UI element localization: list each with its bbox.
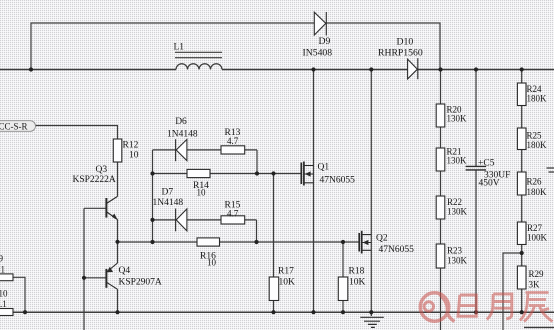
svg-text:130K: 130K <box>447 114 468 124</box>
svg-text:R12: R12 <box>123 141 139 151</box>
inductor L1 <box>176 64 222 70</box>
wire D7 R15 row <box>153 220 257 242</box>
wire Q1 drain source column <box>313 70 315 313</box>
svg-text:4.7: 4.7 <box>227 209 239 219</box>
resistor R15 <box>221 216 245 224</box>
svg-text:450V: 450V <box>479 179 500 189</box>
wire C5 column <box>475 70 477 313</box>
svg-text:47N6055: 47N6055 <box>320 176 356 186</box>
svg-text:R18: R18 <box>349 267 365 277</box>
svg-text:130K: 130K <box>447 156 468 166</box>
transistor Q4 <box>106 263 117 289</box>
svg-text:180K: 180K <box>527 140 548 150</box>
svg-text:CC-S-R: CC-S-R <box>0 121 28 131</box>
svg-text:IN5408: IN5408 <box>303 47 333 58</box>
wire R17 column <box>273 174 275 313</box>
svg-text:130K: 130K <box>447 256 468 266</box>
svg-text:R24: R24 <box>527 84 543 94</box>
svg-text:10: 10 <box>129 151 139 161</box>
resistor R25 <box>517 128 526 150</box>
wire top loop <box>31 23 440 70</box>
svg-text:KSP2907A: KSP2907A <box>119 278 162 288</box>
svg-text:180K: 180K <box>527 94 548 104</box>
ground <box>360 312 384 328</box>
wire R12 to Q3 collector <box>117 162 119 196</box>
svg-text:L1: L1 <box>174 43 185 53</box>
resistor R13 <box>221 146 245 154</box>
svg-text:100K: 100K <box>527 233 548 243</box>
svg-text:Q4: Q4 <box>119 266 131 276</box>
resistor R26 <box>517 172 526 195</box>
resistor R12 <box>113 139 122 162</box>
svg-text:R25: R25 <box>527 131 543 141</box>
transistor Q3 <box>106 196 117 220</box>
wire R24 R29 column <box>521 70 523 313</box>
capacitor right edge clipped <box>547 168 554 172</box>
wire R16 row to Q2 gate <box>118 241 360 243</box>
svg-text:D6: D6 <box>175 117 187 127</box>
diode D9 <box>314 12 326 36</box>
svg-text:4.7: 4.7 <box>227 136 239 146</box>
resistor R29 <box>517 266 526 289</box>
svg-text:+C5: +C5 <box>478 159 495 169</box>
wire R9 lead <box>13 277 25 312</box>
svg-text:Q2: Q2 <box>376 234 388 244</box>
wire Q3 Q4 column <box>117 220 119 313</box>
resistor R14 <box>187 169 210 177</box>
resistor R10 clipped <box>0 309 13 316</box>
resistor R16 <box>197 238 220 246</box>
diode D7 <box>176 209 187 232</box>
wire bottom bus <box>0 311 554 313</box>
svg-text:10K: 10K <box>349 278 366 288</box>
wire main bus right <box>222 69 554 71</box>
watermark logo <box>420 293 454 322</box>
svg-text:10K: 10K <box>279 278 296 288</box>
wire R10 lead <box>13 311 25 313</box>
watermark char ri <box>458 295 476 316</box>
mosfet Q2 <box>359 231 371 254</box>
watermark char chen <box>520 293 553 322</box>
svg-text:D9: D9 <box>319 36 331 47</box>
resistor R27 <box>517 222 526 245</box>
wire main bus left <box>0 69 176 71</box>
wire R18 column <box>342 242 344 312</box>
svg-text:RHRP1560: RHRP1560 <box>378 47 423 58</box>
wire bottom right stub <box>524 326 554 328</box>
svg-text:D10: D10 <box>397 37 414 48</box>
svg-text:1: 1 <box>1 264 6 274</box>
wire CC-S-R to R12 <box>34 126 118 140</box>
capacitor C5 <box>466 166 486 170</box>
wire Q3 base <box>84 207 106 209</box>
svg-text:10: 10 <box>197 187 207 197</box>
svg-text:Q3: Q3 <box>96 165 108 175</box>
wire feedback tap <box>503 253 522 330</box>
svg-text:D7: D7 <box>162 188 174 198</box>
resistor R17 <box>269 277 279 301</box>
mosfet Q1 <box>301 162 313 186</box>
wire base rail down off page <box>83 208 85 330</box>
svg-text:KSP2222A: KSP2222A <box>73 175 116 185</box>
resistor R22 <box>436 196 445 219</box>
svg-text:9: 9 <box>0 254 4 264</box>
resistor R23 <box>436 244 445 268</box>
svg-text:.1: .1 <box>0 299 7 309</box>
svg-text:47N6055: 47N6055 <box>379 245 415 255</box>
svg-text:R27: R27 <box>527 223 543 233</box>
wire Q2 drain source column <box>370 70 372 313</box>
diode D10 <box>408 58 418 79</box>
svg-text:1N4148: 1N4148 <box>153 198 184 208</box>
wire D6 R13 row <box>153 150 258 174</box>
svg-text:R29: R29 <box>529 269 545 279</box>
resistor R9 clipped <box>0 274 13 281</box>
svg-text:130K: 130K <box>447 207 468 217</box>
svg-text:R23: R23 <box>447 246 463 256</box>
svg-text:3K: 3K <box>529 280 541 290</box>
svg-text:R17: R17 <box>278 267 294 277</box>
svg-text:R22: R22 <box>447 197 462 207</box>
svg-text:Q1: Q1 <box>318 163 330 173</box>
svg-text:1N4148: 1N4148 <box>167 130 198 140</box>
resistor R20 <box>436 104 445 127</box>
watermark char yue <box>487 294 512 320</box>
wire left rail <box>152 150 154 242</box>
svg-text:R26: R26 <box>527 177 543 187</box>
svg-text:180K: 180K <box>527 187 548 197</box>
svg-text:10: 10 <box>207 258 217 268</box>
resistor R24 <box>517 83 526 106</box>
resistor R18 <box>338 277 348 301</box>
net label CC-S-R <box>0 121 36 132</box>
wire Q4 base <box>84 277 106 279</box>
diode D6 <box>176 139 187 161</box>
resistor R21 <box>436 148 445 171</box>
wire R14 row to Q1 gate <box>153 173 301 175</box>
svg-text:10: 10 <box>0 289 8 299</box>
wire R20 R23 column <box>440 70 442 330</box>
